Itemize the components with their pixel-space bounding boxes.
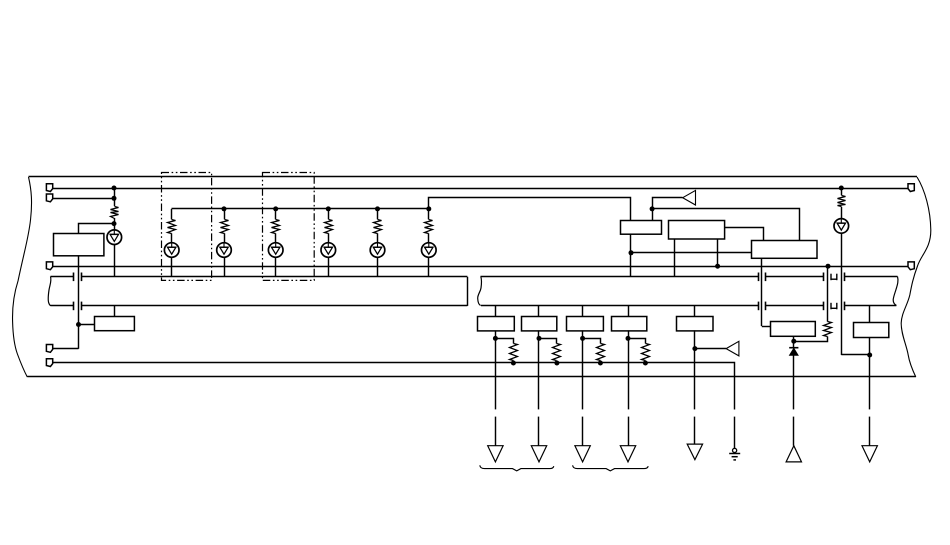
resistor R13 [642,344,650,361]
wire node J7 to off-page arrow A1 [653,198,683,209]
lamp D4 [268,243,283,258]
node J7 [650,206,655,211]
junction block right torn closure [893,277,898,306]
page outline bottom border [27,376,916,378]
wire feed to resistor R2 [171,209,173,219]
joint H symbol top [831,274,837,281]
wire junction block to K2 top [114,306,116,316]
node J3 [112,221,117,226]
connector pin P7 [908,262,914,270]
resistor R11 [553,344,561,361]
wire U1 bottom to junction block [630,234,632,277]
wire U2 to junction block [674,239,676,277]
resistor R4 [272,220,280,234]
wire U1 pin2 up [652,209,654,220]
off-page arrow A4 (down) [488,446,503,462]
wire module M2 output (below gap) [538,417,540,446]
wire node J7 to unit U3 top [653,209,800,241]
unit U3 [752,241,818,259]
wire module M3 output down [582,330,584,409]
wire lamp D8 down through junction block [841,233,843,355]
wire diode down [793,355,795,409]
unit U4 [771,322,816,337]
wire lamp D7 to junction block [428,257,430,277]
ground G1 [729,448,740,460]
connector pin P5 [46,359,52,367]
joint bar right-top B [844,273,846,282]
node F3 [273,206,278,211]
wire to resistor R12 [583,339,601,344]
wire to resistor R10 [496,339,514,344]
resistor R6 [374,220,382,234]
wire U3 bottom through junction block [761,259,763,326]
joint bar left-top A [73,273,75,282]
off-page arrow A9 (down) [687,444,702,460]
junction block right section bottom edge [481,305,758,307]
wire R8 to lamp D8 [841,207,843,219]
connector pin P6 [908,184,914,192]
node M3a [580,336,585,341]
wire to unit U4 left [762,326,771,328]
joint bar mid-top A [758,273,760,282]
node J8 [629,250,634,255]
wire R6 to lamp D6 [377,233,379,242]
joint bar left-bottom B [81,302,83,311]
wire U5 down (below gap) [869,417,871,446]
wire module M5 output down [694,330,696,409]
wire junction block to module M4 [628,306,630,316]
joint bar mid-bottom A [758,302,760,311]
wire feed to resistor R3 [224,209,226,219]
wire to node J11 [841,354,869,356]
junction block right section torn left closure [478,277,482,306]
wire node J4 to unit K2 [79,324,95,326]
wire R5 to lamp D5 [328,233,330,242]
node J12 [692,346,697,351]
node F6 [426,206,431,211]
node M2a [537,336,542,341]
wire resistor R12 to ground bus [600,361,602,363]
wire module M4 output (below gap) [628,417,630,446]
joint bar right-bottom A [823,302,825,311]
node F2 [222,206,227,211]
wire junction drop at x114 [114,188,116,198]
wire feed to resistor R5 [328,209,330,219]
module M1 [478,317,515,331]
wire R3 to lamp D3 [224,233,226,242]
wire pin P4 to node J4 drop [53,348,79,350]
module M4 [612,317,647,331]
wire module M3 output (below gap) [582,417,584,446]
wire U5 bottom down [869,338,871,410]
wire node J9 to resistor R9 bottom [794,337,828,342]
node J10 [839,186,844,191]
joint bar left-top B [81,273,83,282]
node M4b [643,361,648,366]
wire bus to resistor R8 [841,188,843,195]
page outline torn left edge [13,177,32,377]
node M1a [493,336,498,341]
control unit U1 [621,221,662,235]
joint bar right-top A [823,273,825,282]
page outline torn right edge [901,177,931,377]
wire D1 to junction block [114,245,116,277]
junction block left section right edge [467,277,469,306]
underbrace group 2 [573,465,649,471]
node M1b [511,361,516,366]
wire K1 bottom through junction block [78,256,80,349]
unit K2 [95,317,135,331]
joint bar left-bottom A [73,302,75,311]
wire junction block to module M1 [495,306,497,316]
connector pin P2 [46,194,52,202]
junction block right section top edge [481,276,759,278]
off-page arrow A3 (down) [862,446,877,462]
wire junction block to module M2 [538,306,540,316]
lamp D1 [107,230,122,245]
wire U2 to node J5 [717,239,719,267]
control unit U2 [669,221,725,240]
wire U2 right to unit U3 top [725,228,764,241]
wire to resistor R11 [539,339,557,344]
resistor R3 [221,220,229,234]
wire feed to resistor R7 [428,209,430,219]
option box (dash-dot) 2 [263,173,315,281]
wire R1 to node J3 [114,218,116,230]
wire module M1 output down [495,330,497,409]
option box (dash-dot) 1 [162,173,212,281]
wire node J12 to off-page arrow A8 [695,348,726,350]
wire junction block to module M3 [582,306,584,316]
wire module M4 output down [628,330,630,409]
node F4 [326,206,331,211]
joint bar mid-top B [765,273,767,282]
node J2 [112,196,117,201]
wire bus B+ (top) [53,188,908,190]
lamp D2 [164,243,179,258]
relay K1 [54,234,104,256]
resistor R12 [597,344,605,361]
off-page arrow A8 [726,341,739,356]
underbrace group 1 [480,465,554,471]
wire resistor R13 to ground bus [645,361,647,363]
lamp D6 [370,243,385,258]
wire junction block to module M5 [694,306,696,316]
off-page arrow A5 (down) [531,446,546,462]
wire to resistor R1 [114,198,116,206]
module M2 [522,317,557,331]
node F5 [375,206,380,211]
node M2b [554,361,559,366]
wire illumination feed [172,198,631,221]
wire junction block to U5 top [869,306,871,323]
wire to ground G1 (below gap) [734,417,736,449]
diode D9 [789,348,798,356]
wire node J6 to resistor R9 top [827,266,829,321]
resistor R1 [111,207,119,219]
node M3b [598,361,603,366]
wire feed to resistor R6 [377,209,379,219]
off-page arrow A7 (down) [620,446,635,462]
off-page arrow A1 [683,190,696,205]
junction block left torn closure [48,277,51,306]
node J6 [826,264,831,269]
wire feed to resistor R4 [275,209,277,219]
joint bar mid-bottom B [765,302,767,311]
junction block left section bottom edge [51,305,74,307]
wire lamp D3 to junction block [224,257,226,277]
unit U5 [854,323,889,338]
joint H symbol bottom [831,303,837,310]
wire lamp D4 to junction block [275,257,277,277]
node J11 [867,353,872,358]
lamp D5 [321,243,336,258]
wire U4 bottom to node J9 [793,336,795,347]
wire R4 to lamp D4 [275,233,277,242]
resistor R8 [838,196,846,207]
wire lamp D6 to junction block [377,257,379,277]
wire bus (middle) [53,266,908,268]
resistor R2 [168,220,176,234]
wire resistor R10 to ground bus [513,361,515,363]
module M3 [567,317,604,331]
wire R7 to lamp D7 [428,233,430,242]
node M4a [626,336,631,341]
wire lamp D5 to junction block [328,257,330,277]
resistor R5 [325,220,333,234]
lamp D8 [834,219,849,234]
connector pin P4 [46,345,52,353]
node J5 [715,264,720,269]
wire lamp D2 to junction block [171,257,173,277]
wire node J3 to relay K1 top [79,224,115,234]
wire diode down (below gap) [793,417,795,446]
wire module M2 output down [538,330,540,409]
wire to resistor R13 [629,339,646,344]
wire from pin P2 [53,198,114,200]
wire resistor R11 to ground bus [556,361,558,363]
resistor R9 [824,322,832,337]
node J9 [791,339,796,344]
connector pin P3 [46,262,52,270]
wire module M5 output (below gap) [694,417,696,445]
resistor R7 [425,220,433,234]
lamp D3 [217,243,232,258]
junction block left section top edge [51,276,74,278]
joint bar right-bottom B [844,302,846,311]
wire R2 to lamp D2 [171,233,173,242]
connector pin P1 [46,184,52,192]
page outline top border [29,176,918,178]
node J1 [112,186,117,191]
resistor R10 [510,344,518,361]
module M5 [677,317,714,331]
node J4 [76,322,81,327]
wire ground bus from pin P5 [53,363,735,410]
lamp D7 [422,243,437,258]
wire module M1 output (below gap) [495,417,497,446]
off-page arrow A6 (down) [575,446,590,462]
off-page arrow A2 (up) [786,446,801,462]
wire node J8 to unit U3 left [631,252,751,254]
